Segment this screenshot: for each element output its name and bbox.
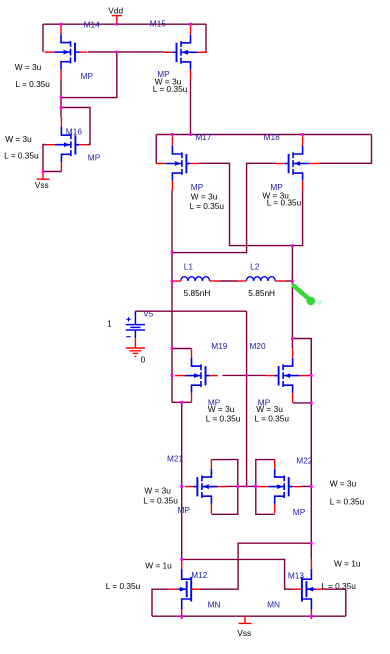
wire M16 gate tap — [61, 108, 90, 145]
svg-text:W = 3u: W = 3u — [191, 191, 218, 201]
svg-text:L = 0.35u: L = 0.35u — [330, 496, 365, 506]
wire gate tap drop — [61, 52, 117, 98]
probe marker — [294, 286, 322, 307]
svg-text:W = 3u: W = 3u — [144, 485, 171, 495]
wire M12 gate corner — [152, 589, 169, 616]
wire M18 gate cross to left node — [172, 163, 276, 252]
svg-text:V5: V5 — [143, 309, 154, 319]
wire M12 bulk cross to M13 drain — [199, 543, 311, 589]
wire left gate net drop — [181, 402, 183, 559]
svg-text:M20: M20 — [250, 341, 267, 351]
wire bottom rail — [152, 615, 346, 617]
svg-text:W = 3u: W = 3u — [5, 134, 32, 144]
svg-text:M15: M15 — [150, 19, 167, 29]
transistor M19 — [175, 348, 218, 402]
wire rail2 right corner to M18 bulk — [319, 135, 371, 164]
svg-text:L = 0.35u: L = 0.35u — [143, 495, 178, 505]
svg-text:W = 1u: W = 1u — [334, 559, 361, 569]
transistor M16 — [45, 118, 88, 172]
inductor L2 — [246, 277, 275, 281]
svg-text:M16: M16 — [66, 127, 83, 137]
wire M17 gate cross to right node — [199, 163, 293, 245]
wire M14 drain down — [60, 79, 62, 118]
svg-text:Vss: Vss — [35, 180, 49, 190]
wire L2 to right node — [285, 280, 292, 282]
svg-text:M18: M18 — [264, 132, 281, 142]
svg-text:M14: M14 — [84, 20, 101, 30]
wire M14 bulk drop — [42, 24, 44, 52]
svg-text:W = 3u: W = 3u — [256, 404, 283, 414]
svg-text:Vdd: Vdd — [108, 6, 123, 16]
svg-text:MP: MP — [293, 507, 306, 517]
svg-text:L = 0.35u: L = 0.35u — [153, 84, 188, 94]
svg-text:0: 0 — [141, 354, 146, 364]
source V5 battery — [126, 311, 145, 338]
Vdd power symbol — [112, 16, 122, 25]
wire M22 gate to right net — [301, 485, 311, 487]
wire top rail Vdd — [43, 23, 206, 25]
svg-text:M12: M12 — [191, 570, 208, 580]
svg-text:L2: L2 — [250, 262, 260, 272]
wire M13 drain down — [310, 543, 312, 559]
wire M12 drain cross to M13 bulk — [182, 559, 294, 589]
svg-text:MP: MP — [191, 182, 204, 192]
svg-text:L1: L1 — [184, 262, 194, 272]
svg-text:v: v — [318, 298, 322, 307]
wire M22 drain-source box — [256, 460, 275, 515]
wire M20 bulk loop top — [292, 339, 311, 376]
wire right tank node vertical upper — [291, 246, 293, 349]
wire M19 drain tap — [172, 348, 192, 350]
wire right gate net drop — [310, 339, 312, 544]
svg-text:L = 0.35u: L = 0.35u — [4, 151, 39, 161]
svg-text:L = 0.35u: L = 0.35u — [15, 79, 50, 89]
svg-text:5.85nH: 5.85nH — [248, 288, 275, 298]
wire M20 bulk pin join — [309, 374, 311, 376]
svg-text:W = 3u: W = 3u — [330, 478, 357, 488]
transistor M20 — [266, 348, 309, 402]
svg-text:MN: MN — [267, 600, 280, 610]
wire M21 drain-source box — [211, 460, 237, 515]
svg-text:L = 0.35u: L = 0.35u — [190, 201, 225, 211]
ground 0 — [126, 338, 145, 356]
svg-text:1: 1 — [107, 319, 112, 329]
wire M15 bulk drop — [205, 24, 207, 52]
wire rail2 left corner to M17 bulk — [155, 135, 157, 164]
svg-text:5.85nH: 5.85nH — [184, 288, 211, 298]
wire second rail — [156, 134, 371, 136]
transistor M15 — [164, 25, 207, 79]
svg-text:M22: M22 — [296, 456, 313, 466]
Vss power symbol left — [37, 172, 50, 180]
svg-text:M21: M21 — [167, 454, 184, 464]
wire left tank node vertical — [171, 253, 173, 403]
wire M18 drain down — [292, 190, 302, 245]
wire M15 drain down — [190, 79, 192, 134]
transistor M17 — [156, 136, 199, 190]
transistor M21 — [185, 459, 228, 513]
transistor M12 — [169, 559, 200, 619]
wire M19 gate to M20 gate — [223, 374, 267, 376]
svg-text:L = 0.35u: L = 0.35u — [255, 414, 290, 424]
svg-text:L = 0.35u: L = 0.35u — [267, 198, 302, 208]
transistor M14 — [45, 25, 88, 79]
wire M13 gate corner — [324, 589, 345, 616]
wire bias line across — [228, 485, 258, 487]
inductor L1 — [181, 277, 210, 281]
wire between L1 L2 — [220, 280, 238, 282]
wire M14 gate to M15 gate — [88, 51, 164, 53]
wire M20 source join — [293, 402, 312, 404]
wire M16 source to Vss — [43, 171, 61, 173]
wire M17 drain down — [171, 190, 173, 252]
wire V5 plus lead — [135, 310, 246, 312]
transistor M13 — [294, 559, 325, 619]
svg-text:M17: M17 — [195, 132, 212, 142]
wire M19 source box — [172, 401, 192, 403]
svg-text:MN: MN — [208, 600, 221, 610]
Vss power symbol bottom — [239, 616, 252, 623]
svg-text:W = 1u: W = 1u — [145, 560, 172, 570]
wire M16 bulk to Vss — [43, 145, 45, 172]
svg-text:W = 3u: W = 3u — [15, 62, 42, 72]
svg-text:L = 0.35u: L = 0.35u — [106, 581, 141, 591]
svg-text:L = 0.35u: L = 0.35u — [206, 414, 241, 424]
svg-text:M13: M13 — [288, 571, 305, 581]
svg-text:MP: MP — [81, 71, 94, 81]
wire V5 bias drop — [246, 311, 248, 486]
svg-text:M19: M19 — [211, 341, 228, 351]
transistor M22 — [258, 459, 301, 513]
svg-text:MP: MP — [178, 505, 191, 515]
svg-text:W = 3u: W = 3u — [208, 404, 235, 414]
svg-text:MP: MP — [88, 153, 101, 163]
svg-text:Vss: Vss — [237, 628, 251, 638]
transistor M18 — [276, 136, 319, 190]
